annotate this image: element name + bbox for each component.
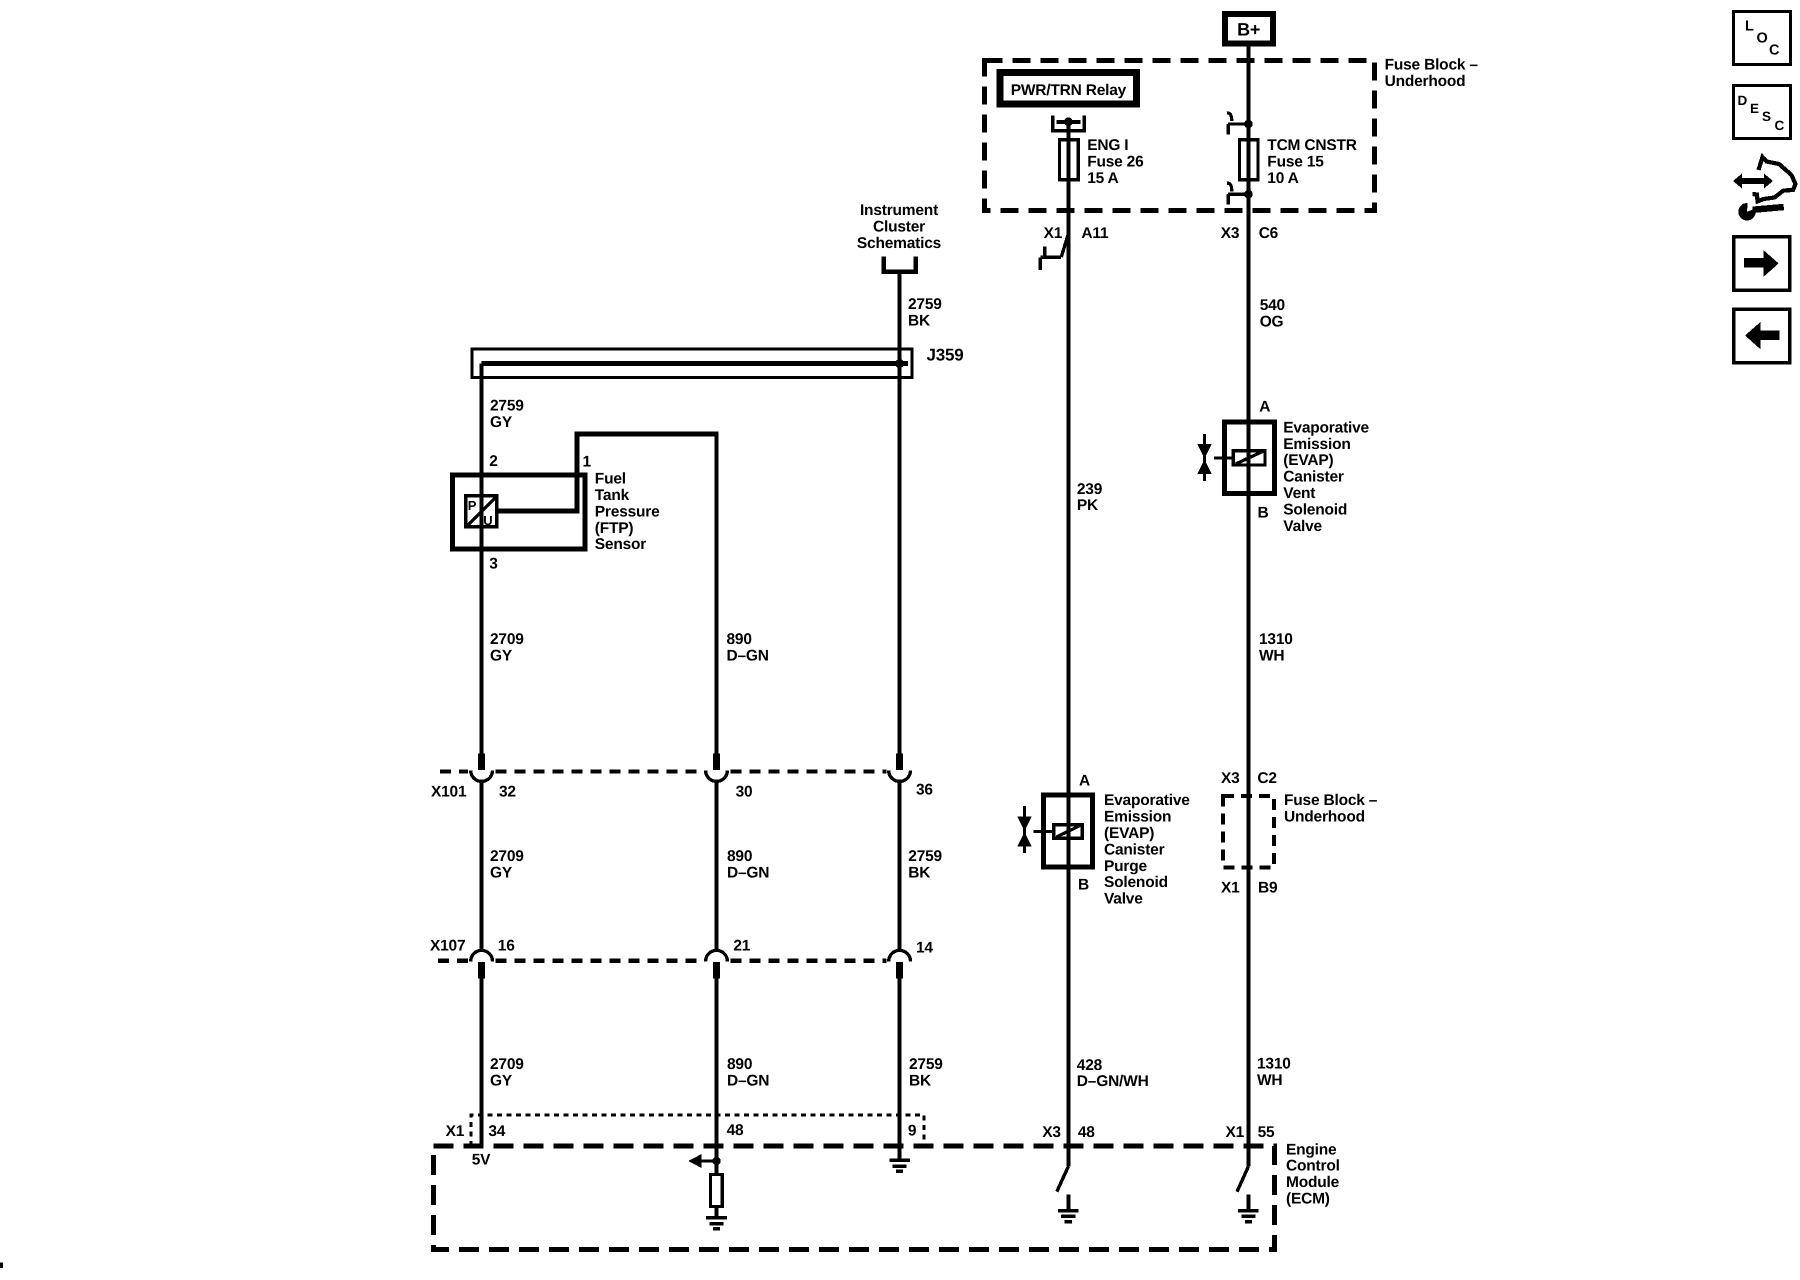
- svg-text:X107: X107: [430, 937, 465, 954]
- svg-text:16: 16: [498, 937, 515, 954]
- svg-text:3: 3: [489, 555, 498, 572]
- label ECM connector X1 pin 55: [1226, 1124, 1276, 1141]
- connector X107 terminal 21: [706, 950, 728, 978]
- svg-text:C: C: [1769, 43, 1780, 59]
- ground ECM pin 9: [889, 1160, 910, 1171]
- svg-text:GY: GY: [490, 414, 513, 431]
- svg-text:Fuse 26: Fuse 26: [1087, 154, 1144, 171]
- svg-text:890: 890: [727, 1056, 752, 1073]
- svg-text:BK: BK: [908, 313, 931, 330]
- svg-text:Fuel: Fuel: [595, 471, 626, 488]
- svg-text:WH: WH: [1257, 1072, 1282, 1089]
- svg-text:21: 21: [733, 937, 750, 954]
- label wire 2759 BK (upper): [908, 296, 942, 329]
- svg-text:2709: 2709: [490, 1056, 524, 1073]
- svg-text:2759: 2759: [908, 848, 942, 865]
- svg-text:Solenoid: Solenoid: [1104, 874, 1168, 891]
- label wire 890 D-GN (lower): [727, 1056, 769, 1089]
- svg-text:TCM CNSTR: TCM CNSTR: [1267, 137, 1356, 154]
- connector bracket to instrument cluster: [882, 257, 919, 272]
- fuse block underhood pass-through enclosure: [1223, 796, 1274, 867]
- svg-text:10 A: 10 A: [1267, 170, 1298, 187]
- svg-text:Emission: Emission: [1104, 809, 1171, 826]
- svg-text:Tank: Tank: [595, 487, 630, 504]
- toolbar icon schematic navigation (double arrow and wrench): [1733, 157, 1796, 221]
- label connector X1 pin B9: [1221, 880, 1278, 897]
- svg-text:Canister: Canister: [1283, 469, 1344, 486]
- svg-text:14: 14: [916, 939, 933, 956]
- vent valve pintle symbol: [1197, 434, 1211, 481]
- svg-text:Emission: Emission: [1283, 436, 1350, 453]
- connector X101 terminal 36: [889, 754, 911, 782]
- wire ECM pin 48 to resistor: [715, 1146, 719, 1175]
- svg-text:Engine: Engine: [1286, 1141, 1337, 1158]
- solenoid EVAP canister purge valve body: [1044, 795, 1093, 867]
- svg-text:X1: X1: [446, 1123, 465, 1140]
- wire X107-16 to ECM pin 34 (2709 GY): [480, 978, 484, 1146]
- toolbar icon forward arrow: [1734, 237, 1790, 290]
- junction dot at J359: [895, 359, 904, 368]
- svg-text:5V: 5V: [472, 1152, 491, 1169]
- svg-text:Pressure: Pressure: [595, 503, 660, 520]
- svg-text:A: A: [1079, 773, 1090, 790]
- in-line connector at X1-A11: [1040, 234, 1068, 270]
- label connector X3 pin C2: [1221, 770, 1277, 787]
- connector X101 dashed line: [440, 769, 887, 773]
- svg-text:Valve: Valve: [1283, 518, 1322, 535]
- svg-text:O: O: [1757, 31, 1768, 47]
- svg-text:36: 36: [916, 781, 933, 798]
- svg-text:B+: B+: [1237, 19, 1260, 39]
- svg-text:32: 32: [499, 784, 516, 801]
- svg-text:Purge: Purge: [1104, 858, 1148, 875]
- label wire 2759 BK (middle): [908, 848, 942, 881]
- fuse TCM CNSTR Fuse 15 10A: [1239, 140, 1258, 180]
- label wire 1310 WH (lower): [1257, 1056, 1291, 1089]
- svg-text:GY: GY: [490, 1072, 513, 1089]
- in-line connector below TCM fuse: [1227, 183, 1253, 205]
- connector X107 dashed line: [438, 959, 887, 963]
- svg-text:Module: Module: [1286, 1174, 1340, 1191]
- svg-text:GY: GY: [490, 648, 513, 665]
- wire B+ to TCM fuse and down to ECM pin X1-55: [1246, 60, 1250, 1146]
- svg-text:Cluster: Cluster: [873, 219, 925, 236]
- svg-text:Evaporative: Evaporative: [1283, 419, 1369, 436]
- label wire 540 OG: [1260, 297, 1285, 330]
- relay contact (PWR/TRN relay output): [1053, 116, 1085, 131]
- wire X107-21 to ECM pin 48 (890 D-GN): [715, 978, 719, 1146]
- svg-text:Evaporative: Evaporative: [1104, 792, 1190, 809]
- label connector X3 pin C6: [1221, 225, 1279, 242]
- svg-text:Fuse 15: Fuse 15: [1267, 154, 1324, 171]
- scan artifact mark bottom-left: [0, 1263, 3, 1269]
- label wire 2759 GY: [490, 398, 524, 431]
- svg-text:Underhood: Underhood: [1284, 809, 1365, 826]
- svg-text:B9: B9: [1258, 880, 1278, 897]
- svg-text:890: 890: [727, 631, 752, 648]
- svg-text:ENG I: ENG I: [1087, 137, 1128, 154]
- switch ECM driver at X1-55: [1237, 1146, 1248, 1192]
- svg-text:BK: BK: [908, 865, 931, 882]
- svg-text:9: 9: [908, 1122, 917, 1139]
- splice pack J359 housing: [472, 349, 912, 378]
- svg-text:Underhood: Underhood: [1385, 73, 1466, 90]
- svg-text:X1: X1: [1226, 1124, 1245, 1141]
- svg-text:C: C: [1775, 118, 1785, 133]
- wire relay contact to ENG I fuse and down to ECM pin X3-48: [1066, 122, 1070, 1146]
- svg-text:Schematics: Schematics: [857, 235, 941, 252]
- svg-text:B: B: [1078, 877, 1089, 894]
- connector X101 terminal 30: [706, 754, 728, 782]
- label Fuse Block Underhood (top): [1385, 57, 1479, 90]
- label wire 2709 GY (upper): [490, 631, 524, 664]
- svg-text:P: P: [468, 498, 477, 513]
- svg-text:2759: 2759: [490, 398, 524, 415]
- label TCM CNSTR Fuse 15 10 A: [1267, 137, 1356, 187]
- svg-text:Valve: Valve: [1104, 891, 1143, 908]
- svg-text:Canister: Canister: [1104, 841, 1165, 858]
- connector X101 terminal 32: [471, 754, 493, 782]
- svg-text:J359: J359: [927, 346, 964, 365]
- svg-text:X3: X3: [1221, 225, 1240, 242]
- splice bus bar: [482, 361, 908, 366]
- wire B+ to fuse block: [1246, 46, 1250, 60]
- svg-text:X101: X101: [431, 784, 467, 801]
- toolbar icon DESC: [1734, 86, 1791, 139]
- wire resistor to ground: [715, 1207, 719, 1217]
- fuse block underhood enclosure (top): [985, 61, 1375, 211]
- FTP sensor internal wire to pin 1 and over to 890 wire: [498, 434, 719, 511]
- ground ECM X1-55 driver: [1238, 1211, 1259, 1222]
- svg-text:15 A: 15 A: [1087, 170, 1118, 187]
- label wire 1310 WH (middle): [1259, 631, 1293, 664]
- svg-text:55: 55: [1258, 1124, 1275, 1141]
- label Instrument Cluster Schematics: [857, 202, 941, 252]
- label Fuse Block Underhood (middle): [1284, 792, 1378, 825]
- svg-text:D–GN/WH: D–GN/WH: [1077, 1073, 1149, 1090]
- label EVAP canister vent solenoid valve: [1283, 419, 1369, 534]
- wire ECM pin 9 to ground: [898, 1146, 902, 1159]
- label ECM connector X3 pin 48: [1042, 1124, 1095, 1141]
- label wire 890 D-GN (middle): [727, 848, 769, 881]
- vent valve coil: [1214, 451, 1265, 465]
- svg-text:S: S: [1762, 109, 1771, 124]
- label connector X1 pin A11: [1044, 225, 1109, 242]
- svg-text:L: L: [1745, 19, 1754, 35]
- FTP sensor body: [453, 475, 586, 549]
- svg-text:OG: OG: [1260, 314, 1284, 331]
- toolbar icon LOC: [1734, 12, 1791, 65]
- label EVAP canister purge solenoid valve: [1104, 792, 1190, 907]
- svg-text:X3: X3: [1042, 1124, 1061, 1141]
- svg-text:X1: X1: [1221, 880, 1240, 897]
- svg-text:WH: WH: [1259, 648, 1284, 665]
- svg-text:Solenoid: Solenoid: [1283, 501, 1347, 518]
- label Fuel Tank Pressure (FTP) Sensor: [595, 471, 660, 554]
- label wire 890 D-GN (upper): [727, 631, 769, 664]
- svg-text:E: E: [1750, 101, 1759, 116]
- purge valve pintle symbol: [1017, 806, 1031, 853]
- resistor ECM internal pull-down: [711, 1175, 723, 1207]
- label wire 2709 GY (middle): [490, 848, 524, 881]
- svg-text:890: 890: [727, 848, 752, 865]
- svg-text:1310: 1310: [1257, 1056, 1291, 1073]
- ECM connector X1 dotted outline: [471, 1115, 924, 1146]
- svg-text:D–GN: D–GN: [727, 648, 769, 665]
- wire to ground at X1-55 driver: [1246, 1194, 1250, 1209]
- wire to ground at X3-48 driver: [1066, 1194, 1070, 1209]
- svg-text:PWR/TRN Relay: PWR/TRN Relay: [1011, 82, 1127, 99]
- svg-text:Fuse Block –: Fuse Block –: [1284, 792, 1378, 809]
- toolbar icon back arrow: [1734, 309, 1790, 362]
- label wire 2709 GY (lower): [490, 1056, 524, 1089]
- solenoid EVAP canister vent valve body: [1225, 422, 1275, 494]
- svg-text:2709: 2709: [490, 848, 524, 865]
- svg-text:C2: C2: [1257, 770, 1276, 787]
- label ECM connector X1 pin 34: [446, 1123, 506, 1140]
- svg-text:A11: A11: [1081, 225, 1109, 242]
- svg-text:U: U: [483, 513, 492, 528]
- svg-text:48: 48: [1078, 1124, 1095, 1141]
- connector X107 terminal 16: [471, 950, 493, 978]
- purge valve coil: [1034, 825, 1083, 839]
- svg-text:34: 34: [488, 1123, 505, 1140]
- ground ECM internal (below resistor): [706, 1218, 727, 1229]
- node B+ battery feed: [1225, 14, 1273, 43]
- wire instrument cluster to ECM pin 9 (2759 BK): [898, 274, 902, 1146]
- svg-text:2: 2: [489, 453, 497, 470]
- svg-text:2759: 2759: [909, 1056, 943, 1073]
- svg-text:GY: GY: [490, 865, 513, 882]
- svg-text:1310: 1310: [1259, 631, 1293, 648]
- relay PWR/TRN Relay: [1000, 73, 1137, 104]
- ECM pin 48 signal arrow: [688, 1154, 720, 1168]
- svg-text:X3: X3: [1221, 770, 1240, 787]
- fuse ENG I Fuse 26 15A: [1060, 140, 1079, 180]
- svg-text:BK: BK: [909, 1072, 932, 1089]
- switch ECM driver at X3-48: [1057, 1146, 1069, 1192]
- label wire 239 PK: [1077, 481, 1103, 514]
- svg-text:D: D: [1738, 93, 1748, 108]
- svg-text:(FTP): (FTP): [595, 520, 634, 537]
- wire J359 to FTP sensor pin 2 (2759 GY): [480, 364, 484, 475]
- svg-text:2709: 2709: [490, 631, 524, 648]
- svg-text:48: 48: [727, 1122, 744, 1139]
- in-line connector above TCM fuse: [1227, 113, 1253, 135]
- label wire 428 D-GN/WH: [1077, 1057, 1149, 1090]
- svg-text:30: 30: [736, 784, 753, 801]
- svg-text:Control: Control: [1286, 1158, 1340, 1175]
- svg-text:1: 1: [583, 454, 592, 471]
- svg-text:X1: X1: [1044, 225, 1063, 242]
- svg-text:2759: 2759: [908, 296, 942, 313]
- wire through FTP sensor pins 2-3: [480, 475, 484, 556]
- svg-text:Instrument: Instrument: [860, 202, 938, 219]
- svg-text:428: 428: [1077, 1057, 1103, 1074]
- ECM module dashed enclosure: [434, 1146, 1275, 1250]
- ground ECM X3-48 driver: [1058, 1211, 1079, 1222]
- wire X101-32 to X107-16 (2709 GY): [480, 783, 484, 951]
- svg-text:A: A: [1259, 399, 1270, 416]
- svg-text:(EVAP): (EVAP): [1283, 452, 1333, 469]
- svg-text:Sensor: Sensor: [595, 536, 647, 553]
- connector X107 terminal 14: [889, 950, 911, 978]
- svg-text:(EVAP): (EVAP): [1104, 825, 1154, 842]
- svg-text:D–GN: D–GN: [727, 865, 769, 882]
- svg-text:PK: PK: [1077, 497, 1099, 514]
- wire FTP pin 3 to connector X101-32 (2709 GY): [480, 556, 484, 754]
- svg-text:B: B: [1258, 504, 1269, 521]
- label wire 2759 BK (lower): [909, 1056, 943, 1089]
- svg-text:239: 239: [1077, 481, 1103, 498]
- label Engine Control Module ECM: [1286, 1141, 1340, 1207]
- wire X101-30 to X107-21 (890 D-GN): [715, 783, 719, 951]
- svg-text:Vent: Vent: [1283, 485, 1315, 502]
- svg-text:C6: C6: [1259, 225, 1279, 242]
- svg-text:D–GN: D–GN: [727, 1072, 769, 1089]
- label ENG I Fuse 26 15 A: [1087, 137, 1144, 187]
- wire FTP pin 1 to connector X101-30 (890 D-GN): [715, 434, 719, 754]
- svg-text:Fuse Block –: Fuse Block –: [1385, 57, 1479, 74]
- svg-text:(ECM): (ECM): [1286, 1191, 1330, 1208]
- svg-text:540: 540: [1260, 297, 1285, 314]
- FTP sensor P/U transducer symbol: [466, 496, 497, 528]
